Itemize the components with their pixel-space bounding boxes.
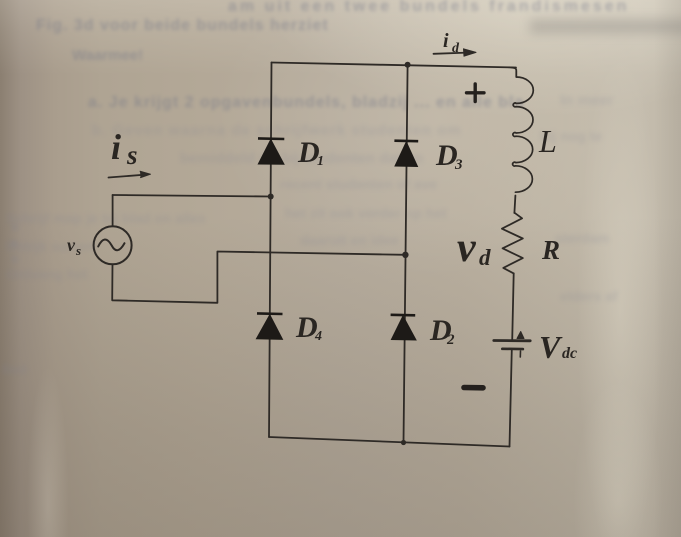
svg-text:2: 2 xyxy=(446,332,455,348)
svg-text:v: v xyxy=(457,225,477,271)
svg-text:V: V xyxy=(539,329,563,365)
svg-text:i: i xyxy=(111,127,121,167)
svg-text:s: s xyxy=(126,140,138,170)
svg-text:i: i xyxy=(443,30,449,52)
svg-text:3: 3 xyxy=(454,157,463,173)
svg-text:L: L xyxy=(538,123,557,159)
svg-text:R: R xyxy=(541,235,560,265)
svg-text:4: 4 xyxy=(314,329,322,344)
svg-text:1: 1 xyxy=(317,154,324,169)
svg-text:v: v xyxy=(67,235,76,255)
svg-text:d: d xyxy=(452,41,460,56)
svg-text:dc: dc xyxy=(562,345,577,362)
svg-text:d: d xyxy=(479,245,491,270)
svg-text:s: s xyxy=(75,243,81,258)
